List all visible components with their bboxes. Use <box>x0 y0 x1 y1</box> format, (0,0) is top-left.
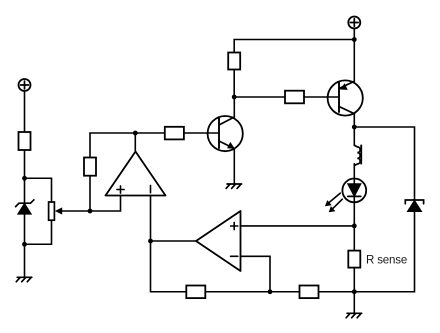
wire U1 output up <box>134 133 136 152</box>
potentiometer RV1 <box>49 202 55 220</box>
wire R2 to top rail to power node <box>234 40 354 53</box>
LED D2 <box>342 179 366 226</box>
resistor R sense <box>348 251 360 268</box>
wire node I to ground <box>353 292 355 313</box>
wire U1 + input to node C <box>90 196 121 212</box>
power P2 (+) <box>348 17 360 29</box>
node K junction <box>268 289 273 294</box>
op-amp U1 (pointing up) <box>106 152 166 196</box>
resistor R1 <box>19 132 31 150</box>
bottom rail wire right segment <box>319 291 355 293</box>
wire node G to diode D3 <box>354 127 414 200</box>
wire R3 to top rail <box>90 133 135 158</box>
wire U2 - input to bottom rail <box>241 256 271 291</box>
power P1 (+) <box>19 79 31 91</box>
wire node H to R sense <box>353 226 355 251</box>
wire zener to node B <box>24 214 26 244</box>
wire node A to zener <box>24 178 26 203</box>
node B junction <box>22 242 27 247</box>
wire Q2 collector to node G <box>353 114 355 127</box>
resistor R6 <box>186 286 205 299</box>
wire pot bottom to node B <box>25 220 52 244</box>
bottom rail wire left segment <box>151 291 187 293</box>
wire U1 - input down to bottom rail <box>150 196 152 292</box>
LED arrow 1 <box>325 193 340 206</box>
wire R1 to node A <box>24 150 26 178</box>
wire P2 down <box>353 29 355 40</box>
zener diode D1 <box>16 200 34 214</box>
ground (bottom right) <box>346 313 362 317</box>
resistor R5 <box>285 91 304 104</box>
node D junction (U1 output) <box>133 131 138 136</box>
node I junction (bottom rail) <box>352 289 357 294</box>
wire node G to inductor <box>353 127 355 145</box>
svg-text:R sense: R sense <box>366 255 407 267</box>
wire U2 output to node J <box>151 240 197 242</box>
wire D3 to bottom rail <box>354 211 414 291</box>
transistor Q1 (NPN) <box>208 116 243 151</box>
node F junction (supply node) <box>352 37 357 42</box>
node A junction <box>22 176 27 181</box>
node C junction (op-amp U1 + input net) <box>88 209 93 214</box>
node J junction <box>148 239 153 244</box>
bottom rail wire middle segment <box>205 291 299 293</box>
wire node E to R2 <box>233 70 235 98</box>
op-amp U2 (pointing left) <box>196 211 241 271</box>
diode D3 <box>405 200 423 211</box>
wire node D to R4 <box>135 132 165 134</box>
resistor R2 <box>228 53 240 70</box>
potentiometer wiper arrow <box>55 207 90 214</box>
resistor R4 <box>165 127 184 140</box>
resistor R7 <box>300 286 319 299</box>
wire node H to U2 + input <box>241 225 355 227</box>
node H junction (LED cathode / U2 + / R sense) <box>352 224 357 229</box>
node G junction <box>352 125 357 130</box>
transistor Q2 (PNP) <box>328 80 363 115</box>
wire Q1 collector to node E <box>233 97 235 117</box>
wire R4 to Q1 base <box>184 132 219 134</box>
wire node A to pot top <box>25 178 52 202</box>
wire P1 to R1 <box>24 91 26 132</box>
wire Q1 emitter to ground <box>233 149 235 184</box>
ground (under Q1) <box>226 184 242 188</box>
ground (left) <box>16 277 32 281</box>
wire node B to ground <box>24 244 26 277</box>
LED arrow 2 <box>329 199 343 212</box>
resistor R3 (feedback) <box>84 158 96 176</box>
wire node E to R5 <box>234 96 285 98</box>
wire L1 to LED <box>353 164 355 179</box>
wire R sense to node I <box>353 268 355 292</box>
wire node C to R3 <box>89 176 91 211</box>
wire node F to Q2 emitter <box>353 40 355 82</box>
wire R5 to Q2 base <box>304 96 339 98</box>
inductor L1 <box>354 145 361 165</box>
node E junction <box>232 95 237 100</box>
